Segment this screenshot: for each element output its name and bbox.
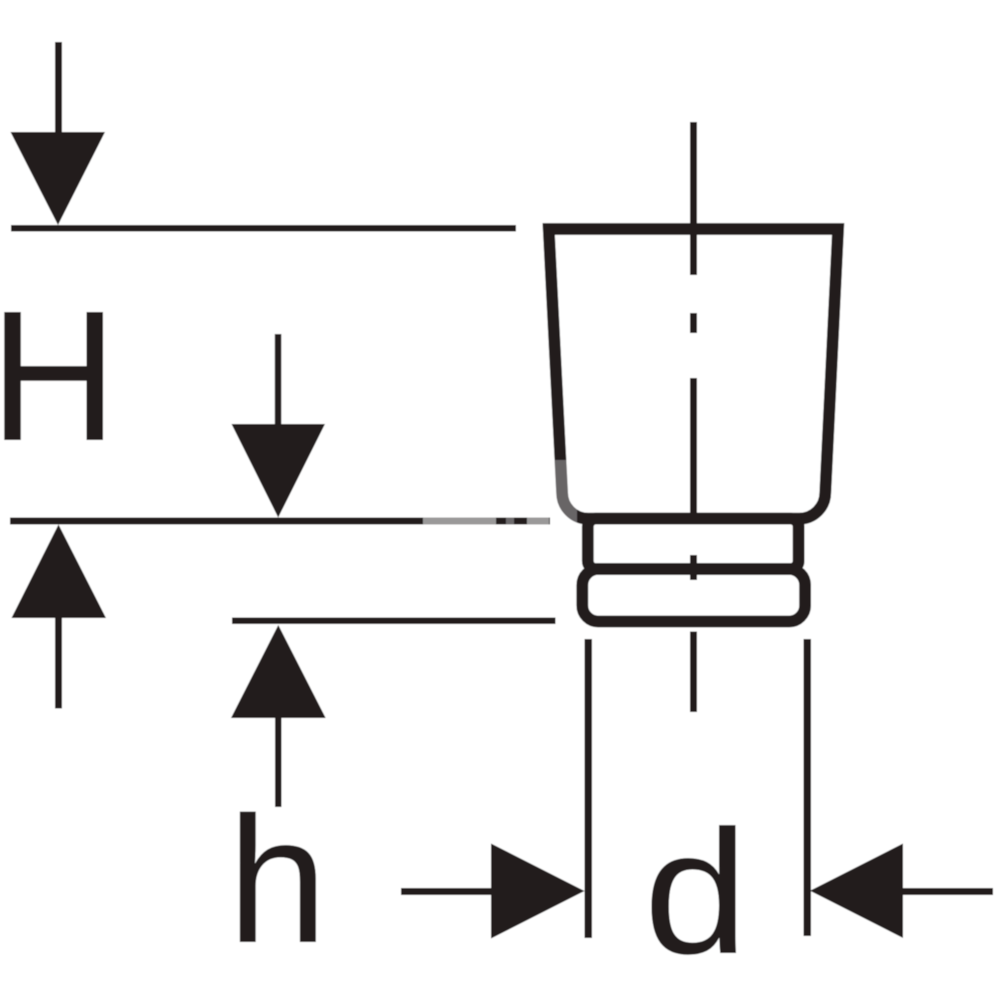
svg-text:H: H (0, 273, 117, 480)
svg-text:d: d (644, 793, 749, 990)
svg-text:h: h (227, 780, 327, 981)
